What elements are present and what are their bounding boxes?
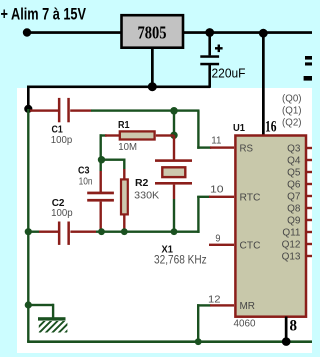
junction C3 top / R2 branch: [98, 156, 105, 163]
IC U1 4060 body: [235, 136, 306, 317]
svg-text:+ Alim 7 à 15V: + Alim 7 à 15V: [1, 6, 87, 24]
capacitor CE plate bottom: [200, 63, 219, 66]
capacitor CE negative lead: [208, 65, 211, 88]
wire R1 right branch vertical: [173, 111, 175, 136]
svg-text:R1: R1: [118, 120, 130, 131]
svg-text:Q8: Q8: [287, 204, 301, 215]
svg-text:7805: 7805: [138, 22, 167, 42]
capacitor C2 plate left: [58, 222, 61, 245]
svg-text:Q4: Q4: [287, 156, 301, 167]
pin stub Q12: [307, 243, 312, 245]
wire ground branch: [28, 304, 54, 318]
ground rail wire (top horizontal): [27, 86, 210, 89]
svg-text:8: 8: [290, 318, 298, 335]
wire pin12 horizontal: [197, 304, 211, 306]
capacitor C3 plate top: [87, 192, 114, 195]
pin stub Q7: [307, 195, 312, 197]
pin 12 stub: [210, 304, 234, 306]
wire pin16 riser: [262, 33, 265, 135]
junction 7805 gnd on ground rail: [148, 82, 157, 91]
capacitor C1 left lead: [30, 109, 58, 111]
wire 7805 output to right edge: [184, 31, 312, 34]
white schematic sheet: [17, 88, 312, 353]
junction R2 bottom: [121, 228, 128, 235]
svg-text:Q12: Q12: [282, 240, 301, 251]
wire ground column green left: [27, 109, 29, 342]
junction top rail / R1 branch: [170, 107, 178, 115]
wire bottom ground rail: [27, 340, 312, 343]
resistor R2 body: [121, 179, 128, 214]
capacitor C1 right lead: [70, 109, 91, 111]
wire pin8 down: [285, 317, 288, 343]
pin stub Q6: [307, 183, 312, 185]
svg-text:RS: RS: [240, 142, 254, 154]
svg-text:Q11: Q11: [282, 228, 301, 239]
wire pin12 riser down: [197, 304, 199, 341]
pin 9 stub: [209, 244, 234, 246]
svg-text:Q6: Q6: [287, 180, 301, 191]
capacitor C1 plate left: [58, 98, 61, 122]
svg-text:100p: 100p: [51, 208, 73, 219]
pin stub Q9: [307, 219, 312, 221]
wire pin11 corner: [197, 111, 211, 149]
node VIN terminal dot: [23, 28, 31, 36]
node C1 left / ground column top: [24, 105, 32, 113]
battery BT1 plate 2 (cut at edge): [305, 62, 312, 65]
pin stub Q11: [307, 231, 312, 233]
wire 7805 ground pin down: [151, 48, 154, 88]
svg-text:Q7: Q7: [287, 192, 301, 203]
pin stub Q4: [307, 159, 312, 161]
resistor R1 right lead: [156, 134, 174, 136]
crystal X1 bottom lead: [173, 185, 175, 231]
ground symbol: [32, 317, 78, 333]
wire pin10 riser: [197, 196, 199, 233]
capacitor CE plate top: [200, 55, 219, 58]
pin 11 stub: [210, 146, 234, 148]
junction C2 left on ground column: [25, 228, 32, 235]
svg-text:12: 12: [208, 293, 221, 305]
svg-text:Q5: Q5: [287, 168, 301, 179]
resistor R1 left lead: [105, 134, 119, 136]
regulator U2 7805 body: [122, 15, 184, 48]
svg-text:330K: 330K: [134, 189, 159, 201]
svg-text:MR: MR: [240, 300, 256, 312]
capacitor CE 220uF positive lead: [208, 33, 211, 55]
svg-text:CTC: CTC: [240, 239, 261, 251]
junction R1 right / X1 top: [170, 132, 177, 139]
wire junction to R2 top: [101, 159, 126, 170]
svg-text:9: 9: [215, 233, 220, 245]
pin 10 stub: [209, 196, 234, 198]
junction pin8 on bottom rail: [282, 337, 291, 346]
svg-text:Q9: Q9: [287, 216, 301, 227]
capacitor C2 plate right: [67, 222, 70, 245]
svg-text:11: 11: [211, 135, 221, 147]
resistor R1 body: [120, 131, 155, 139]
pin stub Q8: [307, 207, 312, 209]
battery BT1 plate 1 (cut at edge): [305, 56, 312, 60]
svg-text:C1: C1: [52, 125, 64, 136]
svg-text:U1: U1: [233, 123, 245, 134]
junction at pin16 riser: [259, 29, 268, 38]
svg-text:10n: 10n: [79, 177, 93, 188]
svg-text:10M: 10M: [118, 142, 137, 153]
pin stub Q3: [307, 147, 312, 149]
capacitor C2 right lead: [70, 231, 96, 233]
svg-text:(Q2): (Q2): [282, 118, 302, 129]
resistor R2 top lead: [123, 169, 125, 179]
plus sign: [215, 45, 223, 53]
junction pin12 on bottom rail: [195, 338, 202, 345]
svg-text:220uF: 220uF: [212, 66, 246, 81]
svg-text:RTC: RTC: [240, 191, 261, 203]
wire VIN to 7805 input: [27, 31, 121, 34]
pin stub Q5: [307, 171, 312, 173]
junction X1 bottom: [171, 228, 178, 235]
battery BT1 plate 3 (cut at edge): [304, 76, 312, 81]
svg-text:10: 10: [210, 183, 224, 195]
svg-text:(Q0): (Q0): [282, 94, 302, 105]
svg-text:4060: 4060: [234, 319, 256, 330]
wire pin10 horizontal: [197, 196, 210, 198]
pin stub Q13: [307, 255, 312, 257]
svg-text:C3: C3: [78, 165, 90, 176]
wire R1 left corner green: [100, 134, 107, 161]
capacitor C3 plate bottom: [87, 199, 114, 202]
junction at 220uF top: [205, 28, 214, 37]
capacitor C2 left lead: [28, 231, 58, 233]
svg-text:(Q1): (Q1): [282, 106, 302, 117]
crystal X1 plate bottom: [155, 182, 192, 185]
junction C3 bottom: [98, 228, 105, 235]
svg-text:100p: 100p: [51, 135, 73, 146]
svg-text:32,768 KHz: 32,768 KHz: [154, 255, 207, 267]
capacitor C3 top lead: [100, 160, 102, 192]
crystal X1 top lead: [173, 135, 175, 160]
capacitor C3 bottom lead: [100, 202, 102, 232]
svg-text:R2: R2: [135, 178, 149, 189]
resistor R2 bottom lead: [123, 214, 125, 231]
capacitor C1 plate right: [67, 98, 70, 122]
svg-text:Q13: Q13: [282, 252, 301, 263]
crystal X1 plate top: [155, 159, 192, 162]
wire oscillator top rail green: [91, 109, 200, 111]
wire left drop black to node: [27, 86, 30, 110]
svg-text:Q3: Q3: [287, 144, 301, 155]
crystal X1 body: [162, 167, 185, 177]
wire oscillator bottom rail green: [96, 231, 200, 233]
junction ground branch: [25, 301, 32, 308]
svg-text:16: 16: [265, 118, 277, 135]
